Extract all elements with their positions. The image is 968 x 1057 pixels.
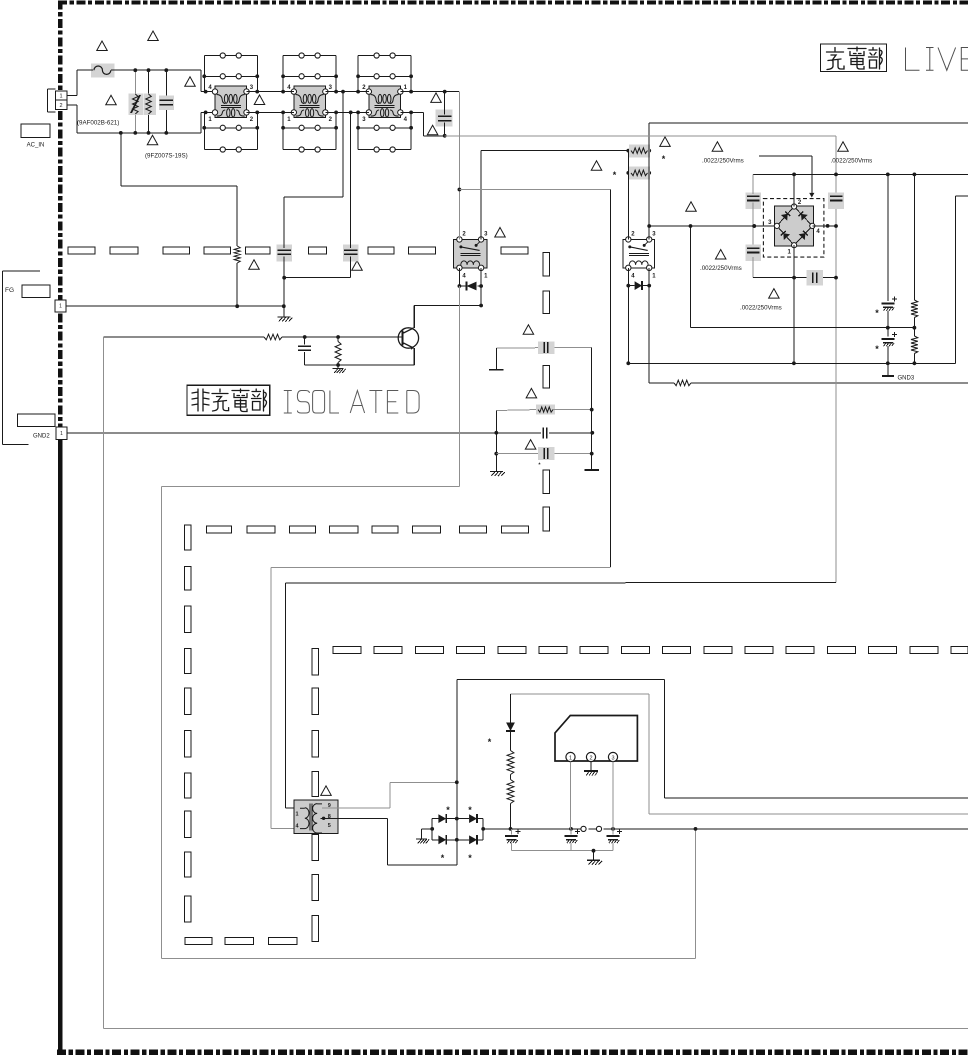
svg-text:*: * [468, 805, 472, 815]
svg-text:1: 1 [59, 304, 62, 310]
svg-text:FG: FG [5, 287, 14, 294]
svg-text:.0022/250Vrms: .0022/250Vrms [740, 305, 782, 312]
svg-text:*: * [875, 308, 879, 318]
svg-text:2: 2 [589, 756, 592, 762]
svg-text:1: 1 [569, 756, 572, 762]
svg-text:8: 8 [328, 814, 331, 820]
svg-text:*: * [468, 853, 472, 863]
svg-text:1: 1 [59, 94, 62, 100]
svg-text:*: * [662, 154, 666, 164]
svg-text:*: * [441, 853, 445, 863]
svg-text:1: 1 [60, 431, 63, 437]
svg-text:GND2: GND2 [33, 434, 50, 440]
svg-text:GND3: GND3 [898, 375, 915, 381]
svg-text:2: 2 [59, 103, 62, 109]
svg-text:AC_IN: AC_IN [27, 143, 45, 149]
svg-text:3: 3 [611, 756, 614, 762]
svg-text:*: * [488, 737, 492, 747]
svg-text:*: * [446, 805, 450, 815]
svg-text:.0022/250Vrms: .0022/250Vrms [702, 158, 744, 165]
svg-text:*: * [613, 170, 617, 180]
svg-text:5: 5 [328, 823, 331, 829]
svg-text:1: 1 [296, 811, 299, 817]
svg-text:.0022/250Vrms: .0022/250Vrms [831, 158, 873, 165]
svg-text:.0022/250Vrms: .0022/250Vrms [700, 265, 742, 272]
svg-text:*: * [875, 344, 879, 354]
svg-text:(9FZ007S-19S): (9FZ007S-19S) [145, 153, 188, 160]
svg-text:9: 9 [328, 803, 331, 809]
svg-text:(9AF002B-621): (9AF002B-621) [77, 120, 119, 127]
